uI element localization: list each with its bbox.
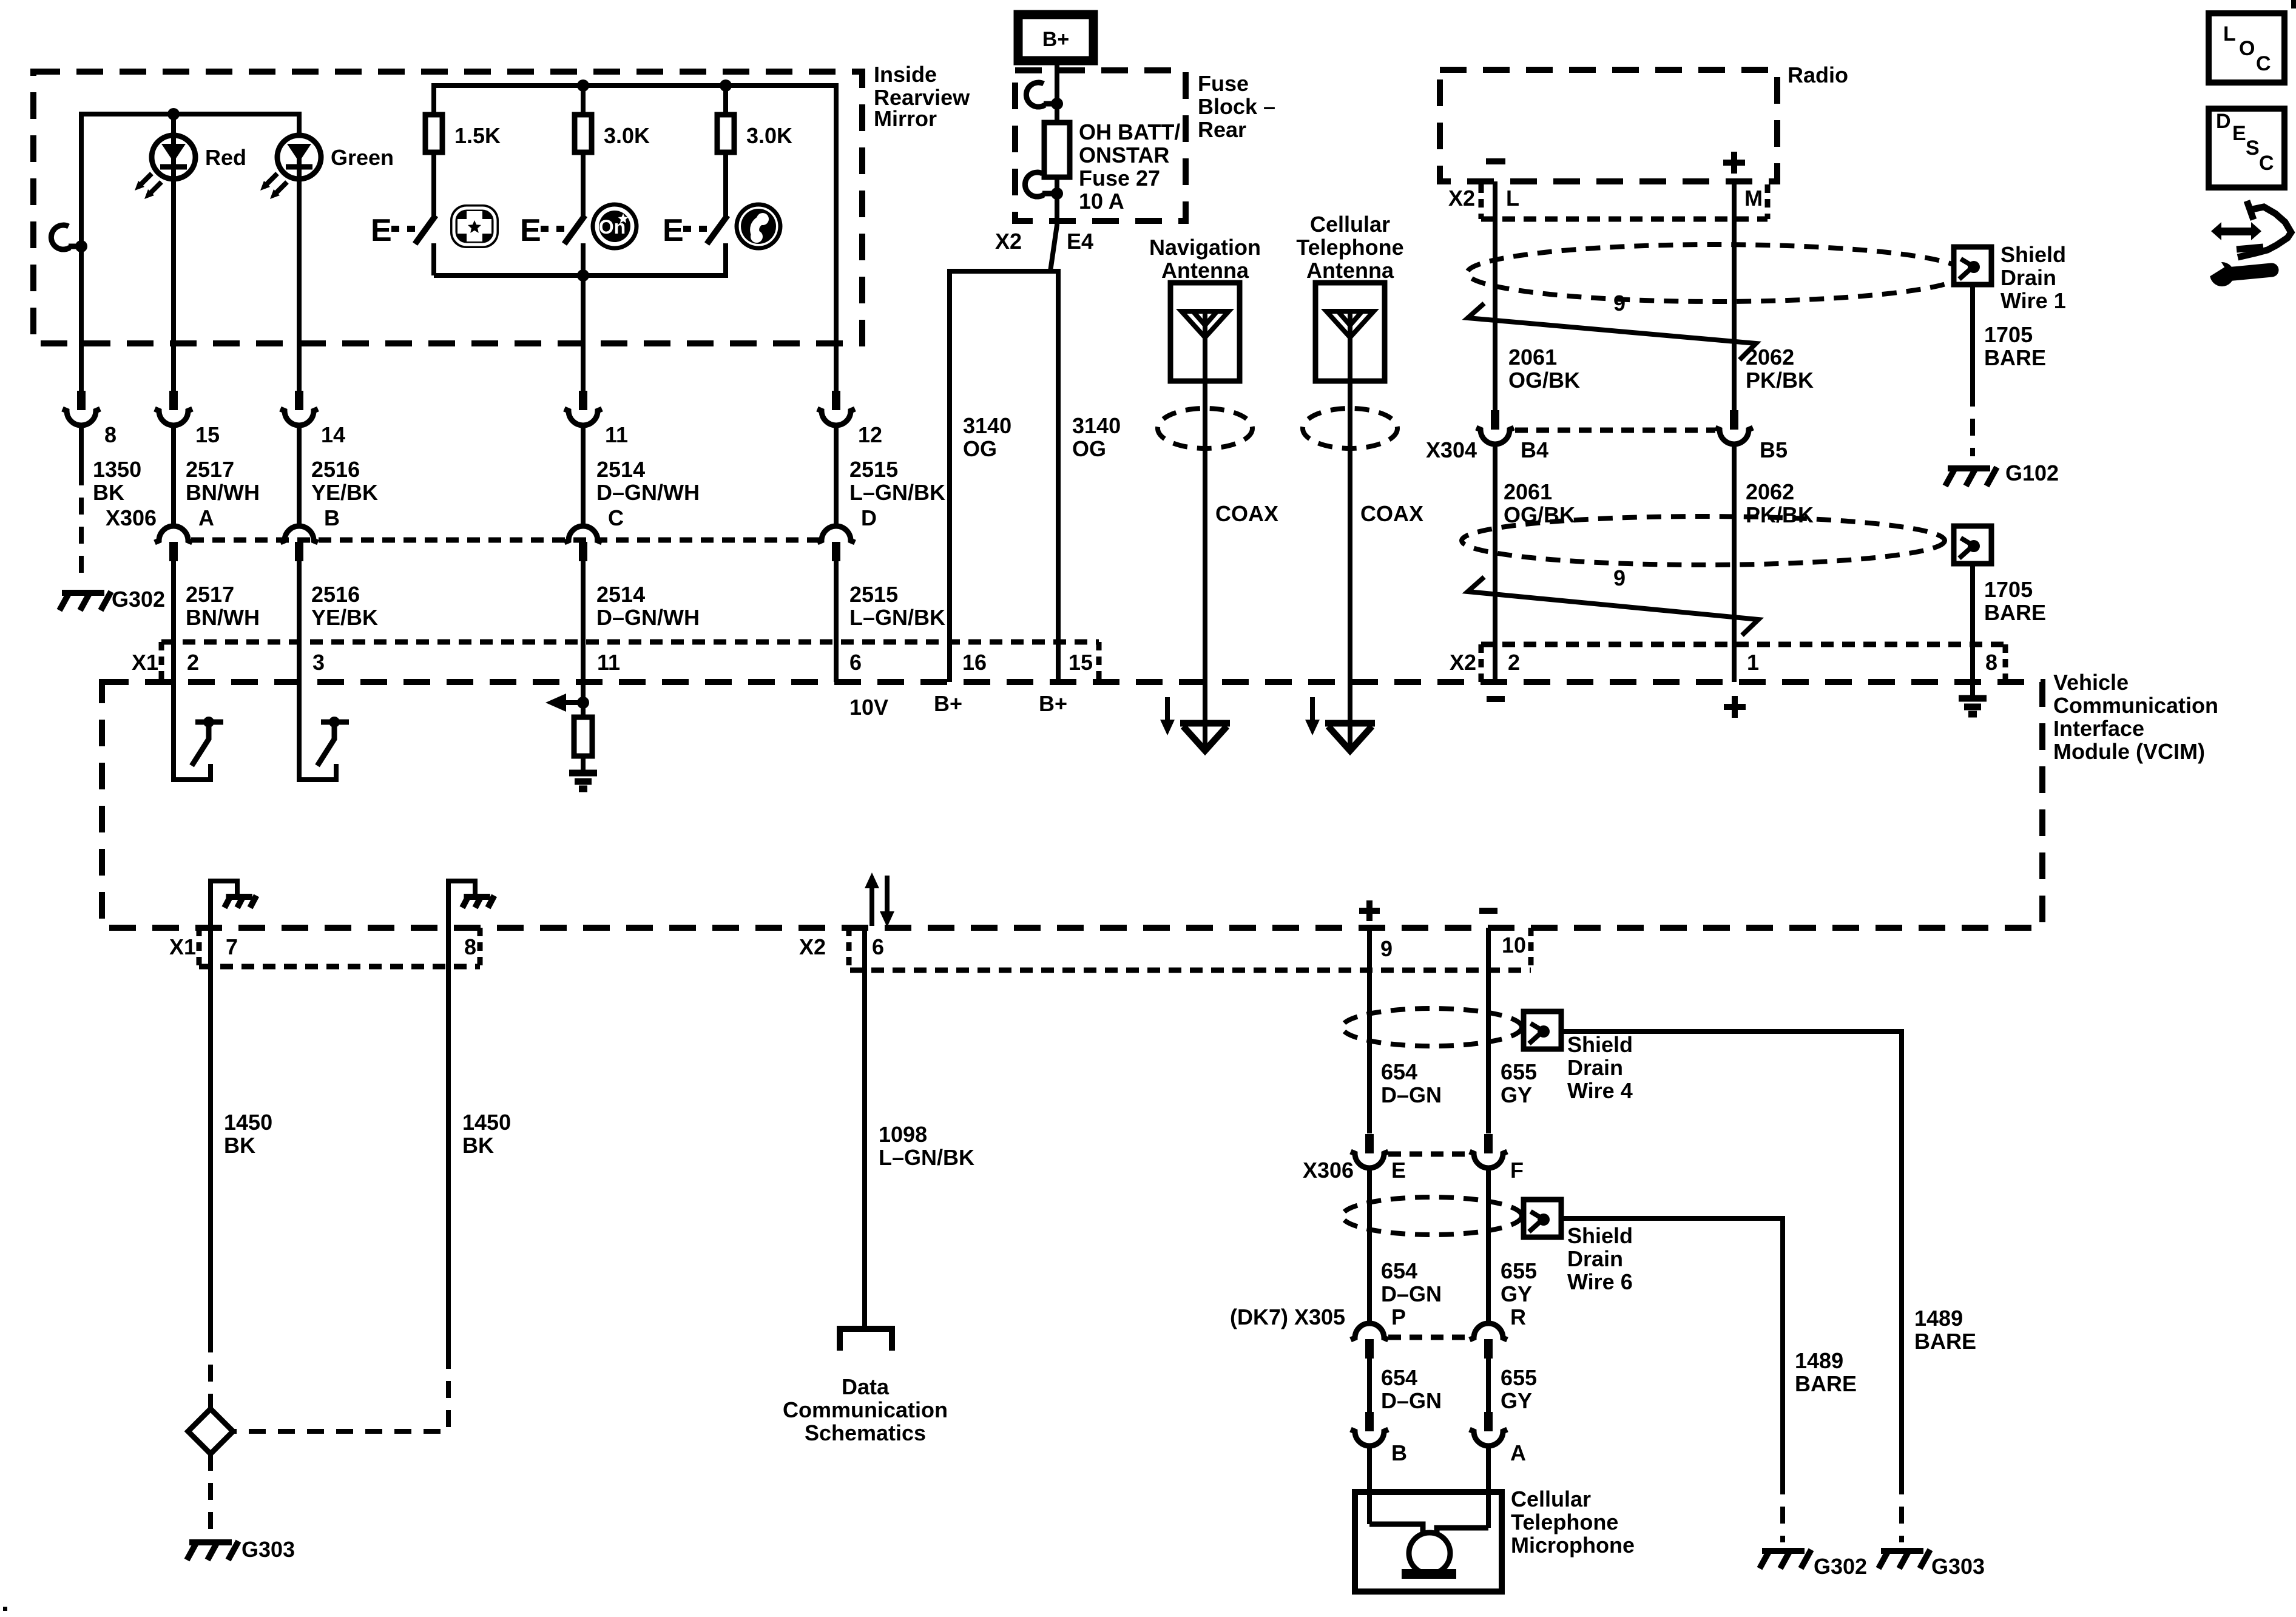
svg-text:R: R (1510, 1305, 1526, 1329)
resistor 3.0K (575, 115, 592, 152)
wire 2515 lower (834, 561, 839, 682)
switch to ground inside VCIM (174, 717, 223, 780)
wire radio L (1493, 181, 1497, 410)
ground G303 bottom (1879, 1550, 1930, 1568)
connector X306 row (191, 538, 819, 543)
connector X2 pin6 chamber (850, 968, 1531, 973)
fuse block rear box (1015, 70, 1186, 221)
svg-text:GY: GY (1501, 1388, 1532, 1413)
icon communication hand (2247, 201, 2254, 220)
arrow RF down (1310, 697, 1315, 722)
wire 1450 BK right (446, 967, 451, 1352)
switch lever (707, 215, 728, 244)
svg-text:BN/WH: BN/WH (186, 480, 260, 505)
svg-text:Interface: Interface (2053, 716, 2144, 741)
wire radio M (1732, 181, 1737, 410)
ground G302 bottom (1760, 1550, 1811, 1568)
svg-text:2516: 2516 (311, 582, 360, 607)
svg-text:COAX: COAX (1215, 501, 1278, 526)
twist marker 9 line 1 (1468, 303, 1756, 360)
fuse clip lower (1025, 172, 1044, 197)
svg-text:L: L (1506, 186, 1519, 211)
svg-text:ONSTAR: ONSTAR (1079, 143, 1169, 167)
switch fixed contact (431, 243, 436, 275)
connector pin 12 (832, 391, 840, 410)
DESC box (2209, 109, 2284, 187)
node bottom bus junction (577, 269, 589, 282)
svg-text:Mirror: Mirror (874, 106, 937, 131)
svg-text:2517: 2517 (186, 582, 234, 607)
svg-text:Wire 4: Wire 4 (1567, 1078, 1633, 1103)
svg-text:Fuse 27: Fuse 27 (1079, 166, 1160, 191)
svg-text:2515: 2515 (849, 457, 898, 482)
wire 2061 lower (1493, 444, 1497, 682)
svg-text:2061: 2061 (1504, 479, 1552, 504)
wire 2516 lower (297, 561, 302, 722)
svg-text:G303: G303 (1931, 1554, 1985, 1579)
svg-text:2062: 2062 (1746, 479, 1794, 504)
svg-text:1098: 1098 (879, 1122, 927, 1147)
LED Green (260, 135, 321, 199)
svg-text:Red: Red (205, 145, 246, 170)
wire 1450 BK left (208, 967, 213, 1335)
wire 3140 split horizontal (950, 271, 1058, 391)
svg-text:6: 6 (872, 934, 884, 959)
svg-text:14: 14 (321, 422, 345, 447)
svg-text:Telephone: Telephone (1511, 1510, 1618, 1534)
ground internal col4 (569, 773, 597, 789)
page corner mark (2291, 0, 2296, 8)
svg-text:BARE: BARE (1795, 1371, 1857, 1396)
svg-text:Cellular: Cellular (1310, 212, 1390, 237)
label minus vcim (1487, 696, 1505, 702)
svg-text:10: 10 (1502, 933, 1526, 957)
svg-text:655: 655 (1501, 1365, 1537, 1390)
svg-text:Shield: Shield (1567, 1032, 1633, 1057)
arrow data up (869, 887, 874, 926)
svg-text:Wire 1: Wire 1 (2001, 288, 2066, 313)
svg-text:655: 655 (1501, 1059, 1537, 1084)
svg-text:BARE: BARE (1984, 345, 2046, 370)
svg-text:1450: 1450 (462, 1110, 511, 1135)
wire 655 seg2 (1486, 1168, 1491, 1323)
svg-text:E: E (520, 213, 541, 248)
svg-text:A: A (1510, 1440, 1526, 1465)
wire shield6 to G302 (1561, 1218, 1783, 1477)
svg-text:BN/WH: BN/WH (186, 605, 260, 630)
connector X2 bottom strip (1481, 642, 2005, 647)
svg-text:L–GN/BK: L–GN/BK (849, 605, 945, 630)
svg-text:Inside: Inside (874, 62, 937, 87)
wire coax (1348, 311, 1352, 381)
svg-text:YE/BK: YE/BK (311, 605, 378, 630)
ground internal pin7 (211, 881, 237, 967)
connector X2 radio strip (1481, 217, 1768, 222)
switch to ground inside VCIM (299, 717, 349, 780)
svg-text:X2: X2 (1450, 650, 1476, 675)
mirror case contact curl (51, 225, 70, 249)
svg-text:2061: 2061 (1508, 345, 1557, 370)
resistor internal col4 (581, 703, 586, 717)
svg-text:Schematics: Schematics (805, 1420, 926, 1445)
svg-text:L–GN/BK: L–GN/BK (879, 1145, 974, 1170)
svg-text:Vehicle: Vehicle (2053, 670, 2129, 695)
svg-text:BK: BK (93, 480, 124, 505)
connector pin A (1484, 1412, 1493, 1431)
node col4 junction (577, 697, 589, 709)
svg-text:X306: X306 (1303, 1158, 1354, 1183)
svg-text:B5: B5 (1760, 437, 1788, 462)
svg-text:8: 8 (1985, 650, 1997, 675)
svg-text:2514: 2514 (596, 582, 645, 607)
cellular telephone microphone box (1355, 1492, 1502, 1592)
wire col1 lower (79, 425, 84, 468)
svg-text:B: B (324, 505, 340, 530)
resistor 1.5K (425, 115, 442, 152)
svg-text:1350: 1350 (93, 457, 141, 482)
svg-text:2: 2 (1508, 650, 1520, 675)
svg-text:C: C (2256, 52, 2271, 75)
svg-text:B: B (1391, 1440, 1407, 1465)
svg-text:P: P (1391, 1305, 1406, 1329)
wire 3140 OG left (947, 391, 952, 682)
svg-text:Drain: Drain (1567, 1246, 1623, 1271)
svg-text:16: 16 (962, 650, 987, 675)
svg-text:C: C (608, 505, 624, 530)
wire switch bottom bus (434, 243, 726, 275)
connector X304 B5 (1730, 410, 1738, 430)
fuse OH BATT/ONSTAR Fuse 27 10A (1055, 104, 1059, 123)
page dot bottom left (3, 1607, 7, 1611)
arrow col4 left (565, 700, 583, 705)
svg-text:GY: GY (1501, 1082, 1532, 1107)
svg-text:Shield: Shield (1567, 1223, 1633, 1248)
svg-text:PK/BK: PK/BK (1746, 368, 1814, 393)
svg-text:OH BATT/: OH BATT/ (1079, 120, 1180, 144)
svg-text:E: E (2232, 122, 2246, 145)
connector pin 8 (77, 391, 86, 410)
svg-text:Drain: Drain (2001, 265, 2056, 290)
svg-text:2516: 2516 (311, 457, 360, 482)
ground G102 (1945, 467, 1997, 486)
svg-text:2514: 2514 (596, 457, 645, 482)
wire 2517 upper (171, 425, 176, 526)
svg-text:BARE: BARE (1984, 600, 2046, 625)
svg-text:2062: 2062 (1746, 345, 1794, 370)
svg-text:G302: G302 (112, 587, 165, 612)
LED Red (135, 135, 195, 199)
label plus mic (1359, 900, 1380, 921)
svg-text:F: F (1510, 1158, 1524, 1183)
shield drain box 2 (1954, 526, 1991, 564)
connector X306 pin D (817, 526, 855, 542)
svg-text:Communication: Communication (2053, 693, 2218, 718)
svg-text:E: E (371, 213, 392, 248)
coax shield ellipse (1158, 408, 1252, 448)
connector X304 B4 (1491, 410, 1499, 430)
connector X306 pin A (155, 526, 192, 542)
icon emergency button (450, 204, 499, 248)
wire resistor to switch (723, 152, 728, 217)
svg-text:11: 11 (605, 422, 628, 447)
mic internal (1369, 1524, 1423, 1534)
wire 655 seg3 (1486, 1359, 1491, 1413)
svg-text:Fuse: Fuse (1198, 71, 1249, 96)
svg-text:X1: X1 (132, 650, 158, 675)
svg-text:6: 6 (849, 650, 862, 675)
wire mic B (1367, 1446, 1372, 1524)
connector pin 14 (295, 391, 303, 410)
connector pin F (1484, 1134, 1493, 1153)
svg-text:E: E (663, 213, 684, 248)
svg-text:Telephone: Telephone (1296, 235, 1403, 260)
svg-text:Cellular: Cellular (1511, 1487, 1591, 1511)
off page bracket (840, 1329, 892, 1351)
svg-text:Rear: Rear (1198, 117, 1246, 142)
wire shield4 to G303 (1561, 1031, 1902, 1477)
shield ellipse 4 (1342, 1008, 1522, 1046)
svg-text:Drain: Drain (1567, 1055, 1623, 1080)
svg-text:B+: B+ (1042, 28, 1069, 51)
svg-text:9: 9 (1380, 936, 1393, 961)
ground G303 left (187, 1541, 238, 1560)
svg-text:X304: X304 (1426, 437, 1477, 462)
svg-text:7: 7 (226, 934, 238, 959)
icon OnStar button (593, 204, 636, 248)
VCIM box (102, 682, 2042, 928)
wire col1 down (79, 246, 84, 391)
connector pin R (1470, 1323, 1507, 1340)
svg-text:Antenna: Antenna (1161, 258, 1249, 283)
svg-text:1705: 1705 (1984, 322, 2033, 347)
svg-text:Data: Data (842, 1374, 890, 1399)
wire R3 top (723, 86, 728, 115)
svg-text:Antenna: Antenna (1306, 258, 1394, 283)
svg-text:X1: X1 (169, 934, 196, 959)
svg-text:1489: 1489 (1795, 1348, 1843, 1373)
wire 654 seg1 (1367, 928, 1372, 1133)
svg-text:X2: X2 (995, 229, 1022, 254)
wire coax (1203, 311, 1207, 381)
svg-text:2515: 2515 (849, 582, 898, 607)
wire 2516 upper (297, 425, 302, 526)
LOC box (2209, 13, 2284, 83)
shield drain box 4 (1524, 1011, 1561, 1049)
svg-text:Microphone: Microphone (1511, 1533, 1635, 1558)
svg-text:OG/BK: OG/BK (1508, 368, 1580, 393)
svg-text:10 A: 10 A (1079, 189, 1124, 214)
B+ power symbol box (1018, 15, 1093, 61)
svg-text:COAX: COAX (1360, 501, 1423, 526)
wire B+ to fuse block (1055, 61, 1059, 104)
svg-text:OG: OG (963, 436, 997, 461)
wire splice to ground (208, 1454, 213, 1534)
svg-text:X2: X2 (799, 934, 826, 959)
wire 2517 lower (171, 561, 176, 722)
svg-text:GY: GY (1501, 1281, 1532, 1306)
svg-text:654: 654 (1381, 1258, 1417, 1283)
svg-text:15: 15 (1069, 650, 1093, 675)
connector X305 row (1388, 1335, 1471, 1340)
twisted pair ellipse 2 (1462, 516, 1945, 565)
resistor 3.0K (717, 115, 734, 152)
svg-text:Communication: Communication (783, 1397, 948, 1422)
svg-text:L–GN/BK: L–GN/BK (849, 480, 945, 505)
wire 654 seg2 (1367, 1168, 1372, 1323)
icon wrench (2204, 258, 2272, 286)
connector pin E (1365, 1134, 1374, 1153)
wire red LED drop (171, 114, 176, 391)
svg-text:9: 9 (1613, 291, 1626, 316)
svg-text:10V: 10V (849, 695, 888, 720)
wire 2514 upper (581, 425, 586, 526)
svg-text:D: D (2216, 110, 2231, 133)
svg-text:OG: OG (1072, 436, 1106, 461)
arrow data down (885, 876, 890, 913)
mic chamber separator (1528, 928, 1534, 970)
wire green LED drop (297, 157, 302, 391)
wire resistor to switch (431, 152, 436, 217)
svg-text:X2: X2 (1448, 186, 1475, 211)
svg-text:3140: 3140 (963, 413, 1011, 438)
wire 1705 upper (1970, 285, 1975, 390)
switch fixed contact (723, 243, 728, 275)
connector X304 row (1515, 428, 1715, 433)
svg-text:D–GN: D–GN (1381, 1281, 1442, 1306)
wire 655 seg1 (1486, 928, 1491, 1133)
wire fuse output angled (1050, 194, 1057, 271)
shield drain wire 1 box (1954, 247, 1991, 285)
arrow RF down (1165, 697, 1170, 722)
switch fixed contact (581, 243, 586, 275)
svg-text:11: 11 (597, 650, 620, 675)
wire LED feed bus (81, 114, 299, 246)
svg-text:BARE: BARE (1914, 1329, 1976, 1354)
svg-text:C: C (2259, 152, 2274, 175)
svg-text:2517: 2517 (186, 457, 234, 482)
svg-text:X306: X306 (106, 505, 157, 530)
node bus junction R3 (720, 79, 732, 92)
svg-text:D: D (861, 505, 877, 530)
svg-text:S: S (2246, 137, 2260, 160)
svg-text:BK: BK (224, 1133, 255, 1158)
svg-text:E: E (1391, 1158, 1406, 1183)
twist marker 9 line 2 (1468, 577, 1758, 635)
wire switch top bus (434, 86, 836, 391)
label minus radio (1486, 158, 1505, 164)
svg-text:1450: 1450 (224, 1110, 272, 1135)
svg-text:2: 2 (187, 650, 199, 675)
wire 2062 lower (1732, 444, 1737, 682)
svg-text:Shield: Shield (2001, 242, 2066, 267)
label plus vcim (1724, 696, 1746, 718)
svg-text:1705: 1705 (1984, 577, 2033, 602)
switch lever (564, 215, 585, 244)
svg-text:B+: B+ (934, 691, 962, 716)
svg-text:Block –: Block – (1198, 94, 1275, 119)
connector X306 pin C (564, 526, 602, 542)
wire col4 drop (581, 275, 586, 391)
svg-text:9: 9 (1613, 565, 1626, 590)
node bus junction R2 (577, 79, 589, 92)
svg-text:3.0K: 3.0K (746, 123, 792, 148)
svg-text:3140: 3140 (1072, 413, 1121, 438)
wire 1098 L-GN/BK (862, 929, 867, 1329)
svg-text:BK: BK (462, 1133, 494, 1158)
svg-text:D–GN: D–GN (1381, 1388, 1442, 1413)
svg-text:Radio: Radio (1788, 62, 1848, 87)
wire 3140 OG right (1056, 271, 1061, 682)
coax shield ellipse (1303, 408, 1397, 448)
svg-text:O: O (2239, 37, 2255, 60)
wire mic A (1486, 1446, 1491, 1528)
svg-text:G102: G102 (2005, 461, 2059, 485)
connector X1 bottom strip (199, 964, 480, 970)
svg-text:M: M (1744, 186, 1763, 211)
svg-text:G302: G302 (1814, 1554, 1867, 1579)
svg-text:B4: B4 (1521, 437, 1548, 462)
connector pin 15 (169, 391, 178, 410)
svg-text:654: 654 (1381, 1059, 1417, 1084)
RF ground triangle (1180, 720, 1230, 727)
switch lever (415, 215, 436, 244)
connector pin 11 (579, 391, 587, 410)
ground internal pin8 (448, 881, 475, 967)
svg-text:8: 8 (464, 934, 476, 959)
svg-text:1: 1 (1747, 650, 1759, 675)
icon phone button (737, 204, 780, 248)
shield ellipse 6 (1342, 1197, 1522, 1235)
svg-text:D–GN: D–GN (1381, 1082, 1442, 1107)
svg-text:A: A (198, 505, 214, 530)
svg-text:654: 654 (1381, 1365, 1417, 1390)
wire resistor to switch (581, 152, 586, 217)
wire R2 top (581, 86, 586, 115)
svg-text:G303: G303 (241, 1537, 295, 1562)
connector pin B (1365, 1412, 1374, 1431)
svg-text:8: 8 (104, 422, 116, 447)
svg-text:3.0K: 3.0K (604, 123, 650, 148)
connector X1 top strip (161, 640, 1099, 645)
svg-text:12: 12 (858, 422, 882, 447)
svg-text:3: 3 (312, 650, 325, 675)
shield drain box 6 (1524, 1200, 1561, 1237)
wire 654 seg3 (1367, 1359, 1372, 1413)
svg-text:D–GN/WH: D–GN/WH (596, 480, 700, 505)
connector pin P (1351, 1323, 1388, 1340)
connector X306 pin B (280, 526, 318, 542)
svg-text:YE/BK: YE/BK (311, 480, 378, 505)
svg-text:Navigation: Navigation (1149, 235, 1261, 260)
svg-text:1.5K: 1.5K (454, 123, 501, 148)
svg-text:B+: B+ (1039, 691, 1067, 716)
wire 1705 lower (1970, 564, 1975, 682)
svg-text:Module (VCIM): Module (VCIM) (2053, 739, 2205, 764)
wire 2515 upper (834, 425, 839, 526)
svg-text:1489: 1489 (1914, 1306, 1963, 1331)
svg-text:D–GN/WH: D–GN/WH (596, 605, 700, 630)
svg-text:Wire 6: Wire 6 (1567, 1269, 1633, 1294)
svg-text:655: 655 (1501, 1258, 1537, 1283)
twisted pair ellipse 1 (1467, 245, 1965, 302)
ground G302 upper (59, 592, 111, 610)
svg-text:15: 15 (195, 422, 220, 447)
label minus mic (1479, 908, 1497, 914)
inside rearview mirror box (33, 72, 862, 343)
svg-text:(DK7) X305: (DK7) X305 (1230, 1305, 1345, 1329)
svg-text:Green: Green (331, 145, 394, 170)
RF ground triangle (1325, 720, 1375, 727)
